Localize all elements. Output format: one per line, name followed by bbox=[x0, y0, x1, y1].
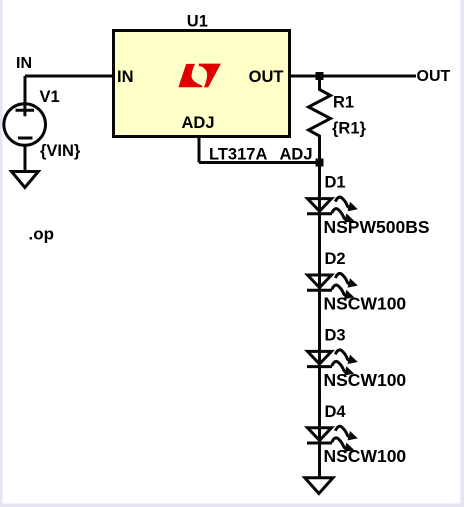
wire D2 to D3 bbox=[318, 290, 321, 352]
resistor R1 bbox=[309, 78, 331, 160]
svg-text:U1: U1 bbox=[187, 13, 208, 31]
value NSCW100 bbox=[324, 293, 407, 313]
svg-text:NSCW100: NSCW100 bbox=[324, 446, 407, 466]
svg-text:.op: .op bbox=[29, 225, 55, 244]
node IN net label bbox=[16, 55, 32, 72]
value NSCW100 bbox=[324, 446, 407, 466]
regulator U1 body (LT317A) bbox=[114, 31, 290, 137]
wire junction to D1 bbox=[318, 166, 321, 199]
junction at OUT/R1 bbox=[316, 72, 324, 80]
svg-text:LT317A: LT317A bbox=[209, 146, 267, 164]
svg-text:V1: V1 bbox=[40, 88, 60, 106]
wire U1 OUT pin to OUT label bbox=[290, 75, 417, 78]
LED D2 bbox=[307, 273, 358, 299]
wire D4 to ground bbox=[318, 443, 321, 478]
LED D4 bbox=[307, 426, 358, 452]
svg-text:D3: D3 bbox=[325, 326, 346, 344]
svg-text:D1: D1 bbox=[325, 174, 346, 192]
value {VIN} bbox=[40, 142, 81, 160]
label R1 bbox=[333, 93, 354, 111]
junction at R1/ADJ/D1 bbox=[316, 159, 324, 167]
value NSPW500BS bbox=[324, 217, 430, 237]
pin label ADJ (external) bbox=[280, 146, 313, 164]
wire IN node down to V1 bbox=[24, 76, 27, 104]
label D4 bbox=[325, 403, 347, 421]
ground (bottom) bbox=[305, 478, 333, 494]
wire U1 ADJ pin down bbox=[198, 137, 201, 163]
label V1 bbox=[40, 88, 60, 106]
node OUT net label bbox=[417, 68, 451, 85]
svg-text:NSPW500BS: NSPW500BS bbox=[324, 217, 430, 237]
label D1 bbox=[325, 174, 346, 192]
svg-text:NSCW100: NSCW100 bbox=[324, 293, 407, 313]
wire IN label to U1 IN pin bbox=[25, 75, 113, 78]
svg-text:OUT: OUT bbox=[417, 68, 451, 85]
voltage source V1 bbox=[4, 104, 46, 146]
svg-text:R1: R1 bbox=[333, 93, 354, 111]
svg-text:D4: D4 bbox=[325, 403, 347, 421]
svg-text:IN: IN bbox=[16, 55, 32, 72]
svg-text:NSCW100: NSCW100 bbox=[324, 370, 407, 390]
label U1 bbox=[187, 13, 208, 31]
pin label ADJ bbox=[182, 114, 215, 132]
ground (left, below V1) bbox=[12, 172, 39, 188]
wire D1 to D2 bbox=[318, 214, 321, 276]
wire V1 to ground bbox=[24, 145, 27, 172]
LED D3 bbox=[307, 350, 358, 376]
svg-text:IN: IN bbox=[117, 68, 134, 86]
value {R1} bbox=[332, 120, 367, 138]
value NSCW100 bbox=[324, 370, 407, 390]
LT logo bbox=[178, 64, 221, 88]
svg-text:D2: D2 bbox=[325, 250, 346, 268]
value LT317A bbox=[209, 146, 267, 164]
svg-text:ADJ: ADJ bbox=[182, 114, 215, 132]
label D2 bbox=[325, 250, 346, 268]
svg-text:ADJ: ADJ bbox=[280, 146, 313, 164]
label D3 bbox=[325, 326, 346, 344]
svg-text:{R1}: {R1} bbox=[332, 120, 367, 138]
pin label OUT bbox=[249, 68, 284, 86]
wire ADJ to R1 bottom bbox=[199, 161, 320, 164]
spice directive .op bbox=[29, 225, 55, 244]
wire D3 to D4 bbox=[318, 367, 321, 429]
svg-text:OUT: OUT bbox=[249, 68, 284, 86]
pin label IN bbox=[117, 68, 134, 86]
svg-text:{VIN}: {VIN} bbox=[40, 142, 81, 160]
LED D1 bbox=[307, 197, 358, 223]
